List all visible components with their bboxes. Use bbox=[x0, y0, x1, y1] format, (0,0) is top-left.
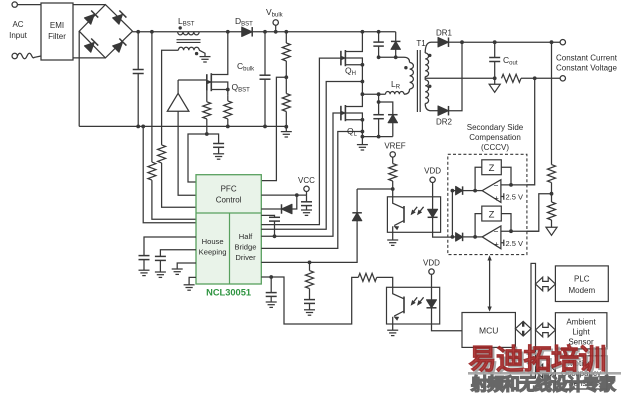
arrow MCU-CCCV bbox=[489, 258, 491, 310]
wire bridge negative down bbox=[78, 31, 80, 126]
node boost switch drain bbox=[226, 30, 230, 34]
wire QH source return bbox=[261, 82, 362, 230]
resistor out divider upper bbox=[551, 42, 553, 164]
wire bridge positive to rail bbox=[133, 31, 178, 33]
wire snubber row top bbox=[379, 57, 410, 62]
node output divider top bbox=[550, 40, 554, 44]
wire FB voltage bbox=[261, 277, 358, 324]
ground aux winding bbox=[200, 56, 211, 58]
node comp1 output bbox=[473, 189, 477, 193]
bridge diode D3 bbox=[84, 38, 98, 52]
wire rail sense down bbox=[151, 32, 153, 162]
svg-text:VCC: VCC bbox=[298, 176, 315, 185]
wire EMI to bridge top bbox=[73, 4, 105, 6]
resistor QBST source bbox=[227, 95, 229, 101]
wire rail sense to House Keeping pin bbox=[152, 180, 196, 219]
svg-text:Z: Z bbox=[489, 209, 495, 220]
opto1 phototransistor bbox=[393, 197, 404, 209]
node Cout top bbox=[493, 40, 497, 44]
diode FB series bbox=[352, 213, 362, 221]
wire QH drain bbox=[345, 32, 362, 52]
svg-text:Input: Input bbox=[9, 31, 28, 40]
phase dot T1 sec upper bbox=[428, 54, 431, 57]
capacitor timing bbox=[269, 216, 280, 218]
core LBST bbox=[177, 39, 201, 41]
wire ZCD aux left bbox=[162, 50, 179, 145]
svg-text:(CCCV): (CCCV) bbox=[481, 143, 509, 152]
svg-text:PFC: PFC bbox=[221, 185, 237, 194]
node snubber2 bottom bbox=[377, 135, 381, 139]
ref 2.5V top bbox=[501, 193, 504, 199]
wire QH gate drive bbox=[261, 58, 341, 225]
transformer T1 core bbox=[416, 50, 418, 112]
svg-text:Constant Voltage: Constant Voltage bbox=[556, 64, 617, 73]
transistor QBST bbox=[206, 74, 208, 90]
MCU box bbox=[462, 313, 515, 348]
resistor FB filter bbox=[309, 262, 311, 270]
capacitor FB filter bbox=[304, 299, 315, 301]
node FB filter bbox=[308, 261, 312, 265]
wire Vbulk feedback to PFC bbox=[261, 77, 286, 180]
node bus top bbox=[451, 189, 455, 193]
node comp1 inv input bbox=[509, 183, 513, 187]
node snubber2 branch bbox=[377, 100, 381, 104]
transformer T1 secondary upper bbox=[425, 42, 431, 53]
wire QL drain bbox=[345, 94, 362, 106]
node bus bottom bbox=[451, 235, 455, 239]
resistor opto2 collector bbox=[358, 273, 376, 281]
wire LR to primary bbox=[404, 89, 410, 94]
node timing cap bbox=[273, 234, 277, 238]
node bridge output bbox=[136, 30, 140, 34]
wire HK pin3 bbox=[177, 263, 196, 269]
diode DR1 bbox=[431, 41, 438, 43]
bus bar bbox=[531, 263, 536, 378]
svg-text:DR2: DR2 bbox=[436, 118, 453, 127]
wire QBST drain bbox=[211, 32, 228, 75]
svg-text:−: − bbox=[494, 180, 499, 190]
arrow bus-PLC bbox=[536, 277, 556, 291]
phase dot LBST bbox=[179, 26, 182, 29]
svg-text:Constant Current: Constant Current bbox=[556, 54, 618, 63]
op-amp comparator U2 bbox=[482, 226, 501, 249]
Motion Occupancy Sensor box bbox=[555, 356, 607, 389]
ground HK pin1 bbox=[139, 269, 150, 271]
opto2 light arrows bbox=[412, 297, 418, 304]
terminal VREF bbox=[390, 152, 395, 157]
bridge diode D4 bbox=[112, 38, 126, 52]
resistor rail sense bbox=[148, 162, 156, 180]
wire current sense down bbox=[527, 78, 535, 185]
capacitor VCC bbox=[306, 195, 308, 202]
node current sense bbox=[533, 76, 537, 80]
wire QL source row bbox=[362, 136, 392, 138]
ground gate RC bbox=[213, 153, 224, 155]
opto2 phototransistor bbox=[393, 287, 404, 299]
diode DBST bbox=[242, 27, 253, 37]
wire diode bus bbox=[451, 191, 453, 237]
node Cbulk bottom bbox=[263, 125, 267, 129]
node comp2 inv input bbox=[509, 229, 513, 233]
input filter capacitor bbox=[137, 32, 139, 70]
bridge diode D1 bbox=[84, 10, 98, 24]
AC input terminal top bbox=[12, 2, 17, 7]
svg-text:Compensation: Compensation bbox=[469, 133, 521, 142]
wire Vbulk stub bbox=[275, 25, 277, 32]
wire HK pin4 bbox=[189, 277, 196, 284]
inductor LBST primary bbox=[178, 31, 200, 33]
node gate RC bbox=[205, 132, 209, 136]
wire RC node to filter cap bbox=[207, 134, 219, 144]
ground Vbulk divider bbox=[285, 127, 287, 132]
svg-text:EMI: EMI bbox=[50, 21, 64, 30]
node Vbulk bbox=[274, 30, 278, 34]
wire VREF to opto bbox=[392, 181, 394, 197]
AC input terminal bottom bbox=[12, 53, 17, 58]
node VCC branch bbox=[295, 193, 299, 197]
diode DR2 bbox=[431, 110, 438, 112]
node QH drain rail bbox=[361, 30, 365, 34]
PLC Modem box bbox=[555, 266, 608, 302]
wire LBST to DBST bbox=[199, 31, 242, 33]
terminal CV negative bbox=[560, 76, 565, 81]
transistor QL bbox=[340, 106, 342, 121]
ground HK pin4 bbox=[184, 284, 195, 286]
opto2 LED bbox=[431, 274, 433, 300]
arrow bus-ALS bbox=[536, 323, 556, 337]
optocoupler U3 box bbox=[387, 197, 440, 233]
svg-text:NCL30051: NCL30051 bbox=[206, 288, 251, 298]
svg-text:Bridge: Bridge bbox=[235, 243, 257, 252]
ground output divider bbox=[546, 227, 557, 235]
wire midpoint to LR bbox=[362, 93, 385, 95]
phase dot T1 primary bbox=[404, 66, 407, 69]
wire QBST gate bbox=[178, 79, 207, 81]
CCCV dashed box bbox=[448, 154, 527, 254]
watermark rule bbox=[468, 372, 621, 375]
capacitor resonant top bbox=[378, 32, 380, 42]
node ground sense bbox=[141, 125, 145, 129]
terminal VDD opto1 bbox=[430, 177, 435, 182]
capacitor HK pin1 bbox=[139, 255, 150, 257]
capacitor resonant bottom bbox=[378, 102, 380, 115]
ground VCC bbox=[301, 209, 312, 211]
svg-text:VDD: VDD bbox=[423, 258, 440, 267]
phase dot LBST aux bbox=[195, 52, 198, 55]
resistor current sense bbox=[502, 74, 522, 82]
resistor QBST gate pulldown bbox=[206, 91, 208, 102]
svg-text:VDD: VDD bbox=[424, 167, 441, 176]
node opto1 collector bbox=[391, 187, 395, 191]
wire RC node to PFC left pin bbox=[188, 134, 207, 182]
svg-text:Filter: Filter bbox=[48, 32, 66, 41]
svg-text:DR1: DR1 bbox=[436, 29, 453, 38]
diode clamp top bbox=[395, 32, 397, 42]
svg-text:2.5 V: 2.5 V bbox=[506, 193, 524, 202]
wire cap pin bbox=[261, 215, 274, 217]
wire comp1 inv input row bbox=[501, 184, 535, 186]
diode OR bottom bbox=[452, 236, 455, 238]
terminal VCC bbox=[304, 186, 309, 191]
wire snubber2 stub bbox=[379, 94, 393, 115]
terminal VDD opto2 bbox=[429, 269, 434, 274]
wire ZCD to PFC pin bbox=[162, 163, 196, 207]
ground FB volt bbox=[266, 301, 277, 303]
node clamp diode bottom bbox=[394, 55, 398, 59]
node snubber cap bottom bbox=[377, 55, 381, 59]
capacitor gate RC bbox=[213, 143, 224, 145]
node rail sense bbox=[150, 30, 154, 34]
optocoupler U4 box bbox=[387, 287, 440, 324]
svg-text:Ambient: Ambient bbox=[566, 318, 596, 327]
bridge rectifier diamond bbox=[79, 5, 132, 58]
node FB volt cap bbox=[269, 275, 273, 279]
node Cout bottom bbox=[493, 76, 497, 80]
arrow bus-Motion bbox=[536, 364, 556, 378]
svg-text:MCU: MCU bbox=[479, 326, 498, 336]
wire comp2 inv input row bbox=[501, 230, 539, 232]
svg-text:Light: Light bbox=[572, 328, 590, 337]
svg-text:−: − bbox=[494, 227, 499, 237]
resistor Vbulk divider lower bbox=[285, 77, 287, 93]
node QL source bbox=[361, 135, 365, 139]
svg-text:Secondary Side: Secondary Side bbox=[467, 123, 524, 132]
EMI Filter box bbox=[41, 3, 73, 60]
node snubber2 top bbox=[377, 92, 381, 96]
resistor Vbulk divider upper bbox=[285, 32, 287, 43]
svg-text:Keeping: Keeping bbox=[199, 248, 227, 257]
wire bottom rail bbox=[79, 125, 286, 127]
node half-bridge midpoint bbox=[361, 92, 365, 96]
capacitor FB volt bbox=[270, 277, 272, 293]
diode VCC charge bbox=[261, 208, 281, 210]
wire FB current bbox=[261, 223, 357, 263]
node Cbulk top bbox=[263, 30, 267, 34]
svg-text:2.5 V: 2.5 V bbox=[506, 239, 524, 248]
phase dot T1 sec lower bbox=[428, 85, 431, 88]
arrow MCU-bus bbox=[515, 322, 531, 336]
node output divider mid bbox=[550, 192, 554, 196]
wire DBST to Vbulk rail bbox=[252, 31, 396, 33]
svg-text:+: + bbox=[494, 193, 499, 203]
Z feedback network top bbox=[475, 167, 482, 190]
inductor LBST aux winding bbox=[178, 47, 199, 50]
node snubber cap top bbox=[377, 30, 381, 34]
transformer T1 primary bbox=[410, 63, 414, 90]
wire EMI to bridge bottom bbox=[73, 57, 105, 59]
wire divider to comparator bbox=[527, 194, 552, 232]
svg-text:T1: T1 bbox=[416, 39, 426, 48]
transformer T1 secondary lower bbox=[425, 80, 428, 104]
ref 2.5V bottom bbox=[501, 240, 504, 246]
ground HK pin3 bbox=[172, 268, 183, 270]
wire center tap bbox=[425, 77, 495, 80]
svg-text:Modem: Modem bbox=[568, 286, 595, 295]
ground output bbox=[494, 78, 496, 84]
node QL source return bbox=[361, 130, 365, 134]
ground opto1 emitter bbox=[387, 239, 398, 241]
wire HK pin1 bbox=[144, 237, 196, 256]
capacitor Cout bbox=[494, 42, 496, 57]
bridge diode D2 bbox=[112, 10, 126, 24]
node filter cap ground bbox=[136, 125, 140, 129]
opto1 LED bbox=[432, 183, 434, 210]
opto1 light arrows bbox=[412, 207, 418, 214]
terminal CC positive bbox=[560, 40, 565, 45]
node Vbulk divider bottom bbox=[284, 125, 288, 129]
svg-text:VREF: VREF bbox=[384, 141, 405, 150]
capacitor Cbulk bbox=[264, 32, 266, 75]
svg-text:射频和无线设计专家: 射频和无线设计专家 bbox=[470, 374, 616, 394]
op-amp boost error amp bbox=[167, 93, 189, 111]
ground QL source bbox=[361, 137, 363, 145]
svg-text:Z: Z bbox=[489, 163, 495, 174]
svg-text:PLC: PLC bbox=[574, 275, 590, 284]
svg-text:House: House bbox=[202, 237, 224, 246]
node comp2 output bbox=[473, 235, 477, 239]
wire QL gate drive bbox=[261, 113, 341, 236]
inductor LR bbox=[386, 92, 405, 95]
node DR1 out bbox=[460, 40, 464, 44]
resistor ZCD bbox=[158, 145, 166, 163]
wire sense to terminal bbox=[521, 77, 560, 79]
wire VCC stub bbox=[306, 192, 308, 196]
wire output positive rail bbox=[462, 41, 560, 43]
terminal Vbulk bbox=[273, 20, 278, 25]
wire HK pin2 bbox=[160, 250, 196, 257]
resistor VREF pullup bbox=[392, 157, 394, 163]
resistor out divider lower bbox=[551, 194, 553, 202]
svg-text:易迪拓培训: 易迪拓培训 bbox=[469, 343, 607, 375]
ground HK pin2 bbox=[155, 271, 166, 273]
transistor QH bbox=[340, 51, 342, 66]
svg-text:Half: Half bbox=[239, 232, 253, 241]
diode OR top bbox=[452, 190, 455, 192]
svg-text:+: + bbox=[494, 239, 499, 249]
ground FB filter bbox=[304, 309, 315, 311]
node QH source return bbox=[361, 80, 365, 84]
wire ground sense to House Keeping pin bbox=[143, 126, 196, 222]
capacitor HK pin2 bbox=[155, 255, 166, 257]
Z feedback network bottom bbox=[475, 214, 482, 237]
svg-text:AC: AC bbox=[12, 20, 23, 29]
controller NCL30051 box bbox=[196, 175, 261, 284]
wire aux right to ground bbox=[199, 50, 205, 56]
wire VCC pin bbox=[261, 194, 306, 196]
diode clamp bottom bbox=[388, 115, 398, 123]
ground opto2 emitter bbox=[387, 329, 398, 331]
svg-text:Control: Control bbox=[216, 196, 242, 205]
node Vbulk divider mid bbox=[284, 75, 288, 79]
wire AC bottom squiggle to EMI filter bbox=[17, 53, 41, 59]
node Vbulk divider top bbox=[284, 30, 288, 34]
wire QL source return bbox=[261, 132, 362, 249]
wire AC top to EMI filter bbox=[17, 4, 41, 6]
op-amp comparator U1 bbox=[482, 180, 501, 203]
node QBST source ground bbox=[226, 125, 230, 129]
Ambient Light Sensor box bbox=[555, 313, 607, 349]
svg-text:Driver: Driver bbox=[235, 253, 256, 262]
